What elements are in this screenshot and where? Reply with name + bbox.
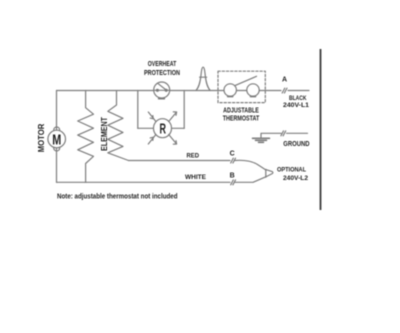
thermostat TS1 right terminal [247, 84, 259, 96]
svg-text:A: A [282, 77, 287, 84]
relay R1 arrow upper-right [169, 112, 177, 122]
overheat switch S1 contacts [156, 89, 158, 91]
overheat protection switch S1 body [154, 82, 170, 98]
ground wire [261, 133, 281, 137]
relay R1 arrow lower-right [169, 135, 177, 145]
svg-text:B: B [230, 172, 235, 179]
wire white line after terminal B break [235, 177, 266, 183]
terminal B break symbol [231, 180, 236, 185]
thermostat TS1 left terminal tab [228, 95, 233, 97]
wire bottom white/neutral line [57, 181, 231, 183]
ground wire after break [287, 132, 308, 134]
wire nut connector (optional L2 splice) [266, 169, 273, 177]
thermal fuse F1 (spike symbol) [196, 67, 210, 90]
svg-text:MOTOR: MOTOR [36, 124, 46, 153]
heating element E2 (right) [108, 91, 129, 161]
relay R1 coil body [154, 119, 172, 138]
wire relay loop bottom [138, 127, 184, 129]
svg-text:WHITE: WHITE [185, 174, 206, 181]
thermostat TS1 left terminal [224, 84, 236, 96]
overheat switch S1 internal wire [154, 89, 169, 91]
svg-text:ADJUSTABLE: ADJUSTABLE [223, 108, 259, 115]
label OVERHEAT PROTECTION [144, 61, 180, 77]
motor M1 housing bumps [54, 127, 60, 133]
thermal fuse F1 crossbar [200, 76, 207, 78]
label BLACK 240V-L1 [283, 95, 309, 109]
relay R1 arrow lower-left [148, 135, 156, 145]
svg-text:ELEMENT: ELEMENT [99, 116, 109, 151]
svg-text:RED: RED [187, 152, 200, 159]
terminal A break symbol [282, 88, 287, 93]
svg-text:240V-L1: 240V-L1 [283, 102, 309, 109]
svg-text:Note: adjustable thermostat no: Note: adjustable thermostat not included [57, 193, 178, 200]
earth ground symbol [253, 138, 270, 142]
svg-text:C: C [230, 151, 235, 158]
motor M1 body [48, 130, 66, 148]
vertical page rule at right [320, 49, 322, 210]
heating element E1 (left) [78, 91, 94, 183]
overheat switch S1 blade [158, 84, 166, 90]
svg-text:BLACK: BLACK [289, 95, 307, 102]
svg-text:OVERHEAT: OVERHEAT [148, 61, 177, 68]
ground wire break symbol [281, 131, 286, 136]
wire top line after terminal A break [288, 90, 309, 92]
svg-text:GROUND: GROUND [283, 141, 309, 148]
wire left bus below motor [56, 147, 58, 182]
svg-text:M: M [52, 131, 61, 148]
svg-text:PROTECTION: PROTECTION [144, 70, 180, 77]
wire red line after terminal C break [235, 160, 266, 169]
overheat switch S1 bottom tab [159, 98, 164, 100]
svg-text:THERMOSTAT: THERMOSTAT [223, 116, 260, 123]
svg-text:R: R [160, 121, 167, 138]
label OPTIONAL 240V-L2 [277, 166, 308, 182]
relay R1 arrow upper-left [148, 112, 156, 122]
wire red line from element to terminal C [129, 160, 231, 162]
wire relay loop right vertical [183, 91, 185, 129]
terminal C break symbol [231, 158, 236, 163]
wire relay loop left vertical [137, 91, 139, 129]
wire left bus (motor branch) [56, 91, 58, 132]
wire top supply line L1 [57, 90, 282, 92]
thermostat TS1 open switch arm [235, 76, 257, 85]
label ADJUSTABLE THERMOSTAT [223, 108, 260, 123]
svg-text:OPTIONAL: OPTIONAL [277, 166, 306, 173]
adjustable thermostat TS1 dashed enclosure [218, 71, 265, 102]
thermostat TS1 right terminal tab [251, 95, 256, 97]
svg-text:240V-L2: 240V-L2 [283, 175, 308, 182]
